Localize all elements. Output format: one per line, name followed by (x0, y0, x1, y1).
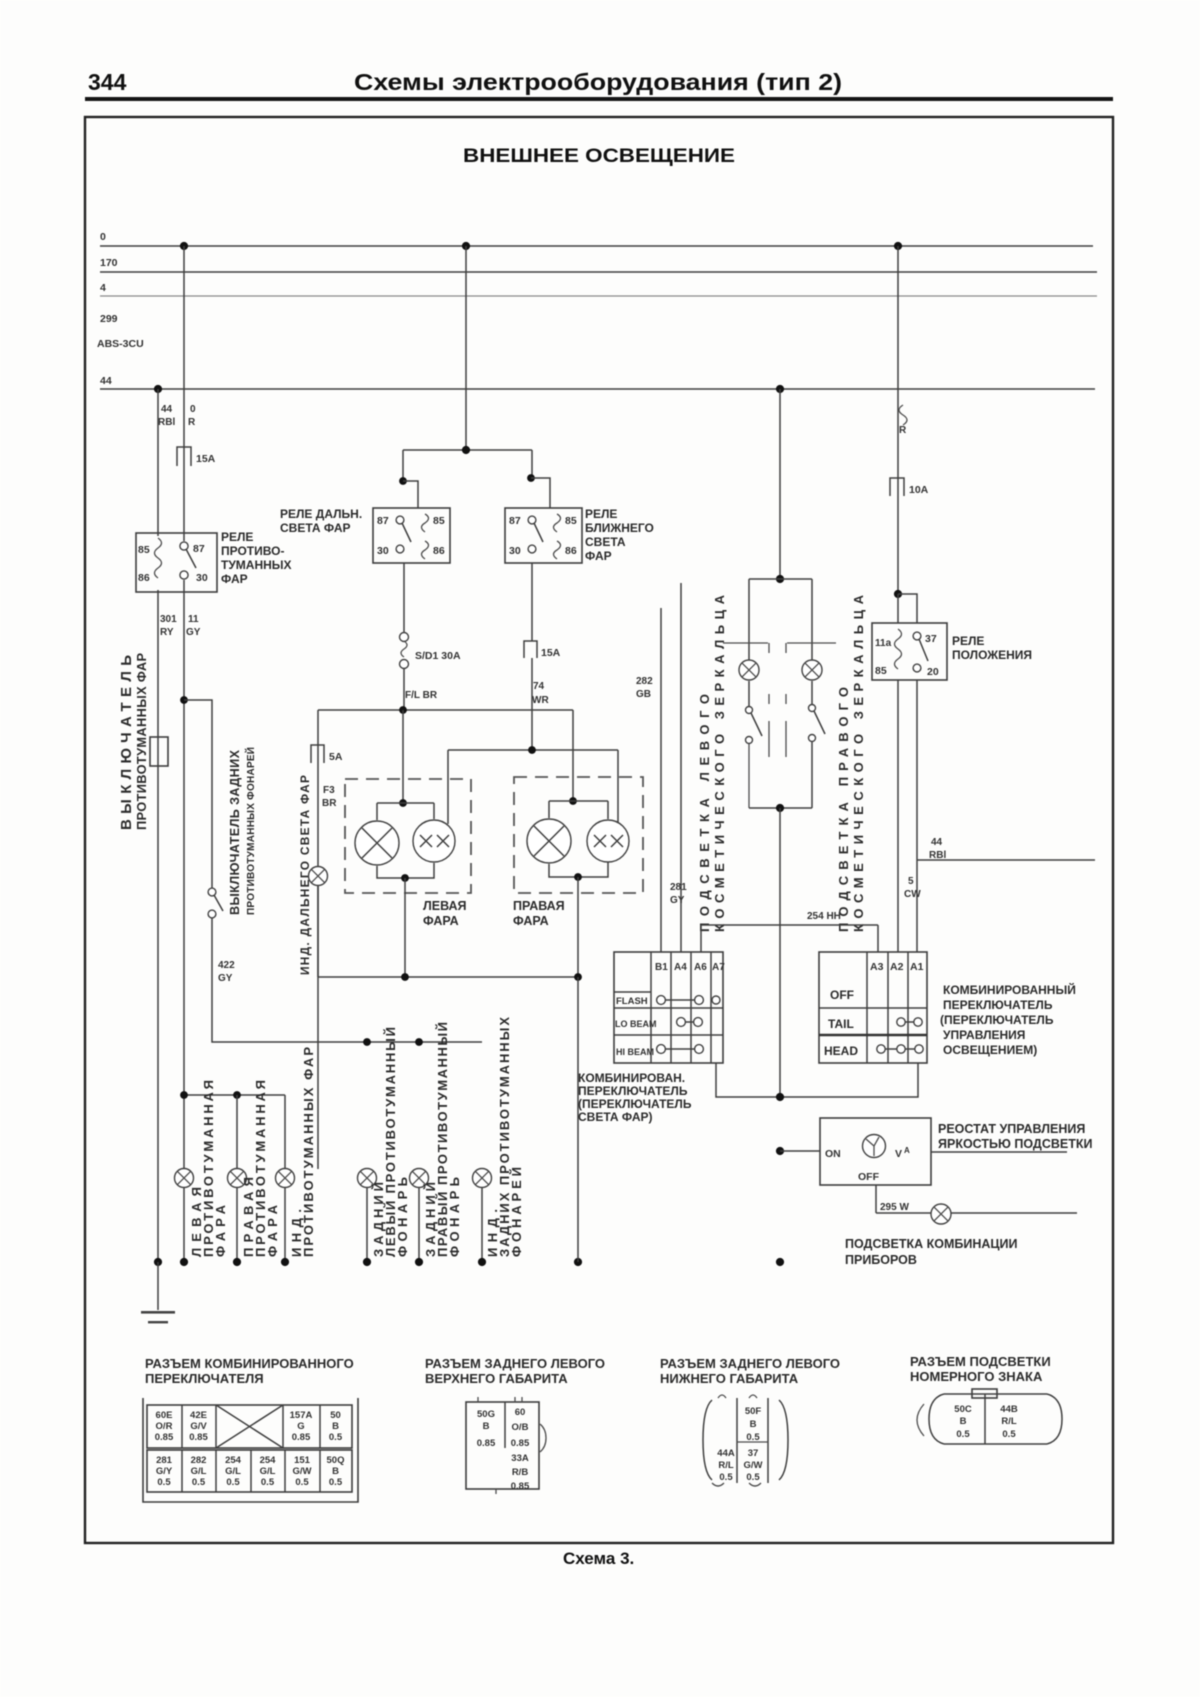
svg-text:G/W: G/W (744, 1460, 763, 1471)
svg-text:50C: 50C (954, 1404, 972, 1415)
svg-text:0.5: 0.5 (192, 1477, 206, 1488)
svg-text:R/L: R/L (718, 1460, 734, 1471)
svg-text:0: 0 (190, 404, 196, 415)
svg-text:86: 86 (565, 545, 577, 557)
svg-text:0.5: 0.5 (329, 1477, 343, 1488)
svg-text:74: 74 (533, 681, 545, 692)
svg-text:КОМБИНИРОВАН.: КОМБИНИРОВАН. (578, 1071, 685, 1085)
svg-text:A6: A6 (694, 962, 707, 973)
svg-text:ФАРА: ФАРА (513, 914, 549, 928)
svg-text:РЕЛЕ: РЕЛЕ (585, 507, 617, 521)
svg-text:ПОДСВЕТКА ПРАВОГО: ПОДСВЕТКА ПРАВОГО (836, 687, 851, 932)
svg-text:281: 281 (156, 1455, 173, 1466)
svg-text:87: 87 (193, 543, 205, 555)
svg-text:0.85: 0.85 (477, 1438, 496, 1449)
svg-text:0.5: 0.5 (746, 1432, 760, 1443)
svg-text:44: 44 (100, 375, 112, 387)
svg-text:85: 85 (433, 515, 445, 527)
svg-text:ПРАВАЯ: ПРАВАЯ (513, 899, 565, 913)
svg-text:0.5: 0.5 (329, 1432, 343, 1443)
svg-text:85: 85 (138, 544, 150, 556)
svg-text:R/L: R/L (1001, 1416, 1017, 1427)
svg-text:20: 20 (927, 666, 939, 678)
svg-text:344: 344 (88, 69, 127, 95)
svg-text:422: 422 (218, 960, 235, 971)
svg-text:44A: 44A (717, 1448, 735, 1459)
svg-text:254 HH: 254 HH (807, 911, 841, 922)
svg-text:ФАР: ФАР (221, 572, 248, 586)
svg-text:РАЗЪЕМ ЗАДНЕГО ЛЕВОГО: РАЗЪЕМ ЗАДНЕГО ЛЕВОГО (425, 1356, 605, 1371)
svg-text:295 W: 295 W (880, 1202, 909, 1213)
svg-text:Схемы электрооборудования (тип: Схемы электрооборудования (тип 2) (354, 69, 842, 95)
svg-text:TAIL: TAIL (828, 1017, 854, 1031)
svg-text:GB: GB (636, 689, 651, 700)
svg-text:ПРОТИВОТУМАННЫХ ФАР: ПРОТИВОТУМАННЫХ ФАР (301, 1047, 316, 1257)
svg-text:OFF: OFF (830, 988, 854, 1002)
svg-text:0.5: 0.5 (746, 1472, 760, 1483)
svg-text:ON: ON (825, 1148, 841, 1160)
svg-text:44B: 44B (1000, 1404, 1018, 1415)
svg-text:F3: F3 (323, 785, 335, 796)
svg-text:СВЕТА: СВЕТА (585, 535, 626, 549)
svg-text:РЕЛЕ: РЕЛЕ (952, 634, 984, 648)
svg-text:85: 85 (565, 515, 577, 527)
svg-text:60: 60 (515, 1407, 526, 1418)
svg-text:299: 299 (100, 313, 118, 325)
svg-text:301: 301 (160, 614, 177, 625)
svg-text:КОСМЕТИЧЕСКОГО ЗЕРКАЛЬЦА: КОСМЕТИЧЕСКОГО ЗЕРКАЛЬЦА (851, 594, 866, 932)
svg-text:170: 170 (100, 257, 118, 269)
svg-text:44: 44 (931, 837, 943, 848)
svg-text:ПЕРЕКЛЮЧАТЕЛЬ: ПЕРЕКЛЮЧАТЕЛЬ (578, 1084, 688, 1098)
svg-text:WR: WR (532, 695, 549, 706)
svg-text:КОСМЕТИЧЕСКОГО ЗЕРКАЛЬЦА: КОСМЕТИЧЕСКОГО ЗЕРКАЛЬЦА (712, 594, 727, 932)
svg-text:BR: BR (322, 798, 337, 809)
svg-text:СВЕТА ФАР): СВЕТА ФАР) (578, 1110, 653, 1124)
svg-text:15A: 15A (541, 647, 561, 659)
svg-text:RBl: RBl (158, 417, 175, 428)
svg-text:B: B (483, 1421, 490, 1432)
svg-text:РЕЛЕ: РЕЛЕ (221, 530, 253, 544)
svg-text:НИЖНЕГО ГАБАРИТА: НИЖНЕГО ГАБАРИТА (660, 1371, 799, 1386)
svg-text:151: 151 (294, 1455, 311, 1466)
svg-text:A3: A3 (870, 961, 884, 973)
svg-text:G/V: G/V (190, 1421, 207, 1432)
svg-text:5: 5 (908, 876, 914, 887)
svg-text:S/D1 30A: S/D1 30A (415, 650, 461, 662)
svg-text:0.5: 0.5 (157, 1477, 171, 1488)
svg-text:R/B: R/B (512, 1467, 529, 1478)
svg-text:0.85: 0.85 (511, 1438, 530, 1449)
svg-text:OFF: OFF (858, 1171, 880, 1183)
svg-text:87: 87 (509, 515, 521, 527)
svg-text:50Q: 50Q (327, 1455, 345, 1466)
svg-text:ПОЛОЖЕНИЯ: ПОЛОЖЕНИЯ (952, 648, 1032, 662)
svg-text:ФАР: ФАР (585, 549, 612, 563)
svg-text:281: 281 (670, 882, 687, 893)
svg-text:5A: 5A (329, 751, 343, 763)
svg-text:G/L: G/L (191, 1466, 207, 1477)
svg-text:ПРОТИВО-: ПРОТИВО- (221, 544, 284, 558)
svg-text:РАЗЪЕМ ЗАДНЕГО ЛЕВОГО: РАЗЪЕМ ЗАДНЕГО ЛЕВОГО (660, 1356, 840, 1371)
svg-text:A2: A2 (890, 961, 904, 973)
svg-text:282: 282 (636, 676, 653, 687)
svg-text:11: 11 (188, 614, 199, 625)
svg-text:282: 282 (191, 1455, 207, 1466)
svg-text:87: 87 (377, 515, 389, 527)
svg-text:44: 44 (161, 404, 173, 415)
svg-text:КОМБИНИРОВАННЫЙ: КОМБИНИРОВАННЫЙ (943, 982, 1076, 997)
svg-text:ВЕРХНЕГО ГАБАРИТА: ВЕРХНЕГО ГАБАРИТА (425, 1371, 568, 1386)
svg-text:РАЗЪЕМ КОМБИНИРОВАННОГО: РАЗЪЕМ КОМБИНИРОВАННОГО (145, 1356, 354, 1371)
svg-text:HEAD: HEAD (824, 1044, 858, 1058)
svg-text:ВНЕШНЕЕ ОСВЕЩЕНИЕ: ВНЕШНЕЕ ОСВЕЩЕНИЕ (463, 146, 735, 167)
svg-text:ПЕРЕКЛЮЧАТЕЛЬ: ПЕРЕКЛЮЧАТЕЛЬ (943, 998, 1053, 1012)
svg-text:B: B (332, 1421, 339, 1432)
svg-text:11a: 11a (875, 638, 892, 649)
svg-text:УПРАВЛЕНИЯ: УПРАВЛЕНИЯ (943, 1028, 1025, 1042)
svg-text:ПРИБОРОВ: ПРИБОРОВ (845, 1253, 917, 1267)
svg-text:0.5: 0.5 (295, 1477, 309, 1488)
svg-text:ЛЕВАЯ: ЛЕВАЯ (423, 899, 467, 913)
svg-text:0.5: 0.5 (719, 1472, 733, 1483)
svg-text:ЯРКОСТЬЮ ПОДСВЕТКИ: ЯРКОСТЬЮ ПОДСВЕТКИ (938, 1137, 1092, 1151)
svg-text:254: 254 (225, 1455, 242, 1466)
svg-text:86: 86 (433, 545, 445, 557)
svg-text:37: 37 (925, 633, 937, 645)
svg-text:G/Y: G/Y (156, 1466, 173, 1477)
svg-text:РЕЛЕ ДАЛЬН.: РЕЛЕ ДАЛЬН. (280, 507, 362, 521)
svg-text:ВЫКЛЮЧАТЕЛЬ ЗАДНИХ: ВЫКЛЮЧАТЕЛЬ ЗАДНИХ (228, 749, 242, 915)
svg-text:G: G (297, 1421, 304, 1432)
svg-text:0.85: 0.85 (511, 1481, 530, 1492)
svg-text:86: 86 (138, 572, 150, 584)
svg-text:R: R (899, 425, 907, 436)
svg-text:R: R (188, 417, 196, 428)
svg-text:СВЕТА ФАР: СВЕТА ФАР (280, 521, 351, 535)
svg-text:B: B (332, 1466, 339, 1477)
svg-text:ПЕРЕКЛЮЧАТЕЛЯ: ПЕРЕКЛЮЧАТЕЛЯ (145, 1371, 264, 1386)
svg-text:0.5: 0.5 (1002, 1429, 1016, 1440)
svg-text:РЕОСТАТ УПРАВЛЕНИЯ: РЕОСТАТ УПРАВЛЕНИЯ (938, 1122, 1085, 1136)
svg-text:LO BEAM: LO BEAM (615, 1019, 657, 1029)
svg-text:85: 85 (875, 665, 887, 677)
svg-text:50G: 50G (477, 1409, 495, 1420)
svg-text:ВЫКЛЮЧАТЕЛЬ: ВЫКЛЮЧАТЕЛЬ (118, 655, 135, 830)
svg-text:0.85: 0.85 (189, 1432, 208, 1443)
svg-text:V: V (895, 1148, 902, 1160)
svg-text:(ПЕРЕКЛЮЧАТЕЛЬ: (ПЕРЕКЛЮЧАТЕЛЬ (578, 1097, 692, 1111)
svg-text:ТУМАННЫХ: ТУМАННЫХ (221, 558, 292, 572)
svg-text:B1: B1 (655, 962, 668, 973)
svg-text:G/W: G/W (293, 1466, 312, 1477)
svg-text:4: 4 (100, 282, 106, 294)
svg-text:RY: RY (160, 627, 174, 638)
svg-text:42E: 42E (190, 1410, 207, 1421)
svg-text:ПРОТИВОТУМАННЫХ ФОНАРЕЙ: ПРОТИВОТУМАННЫХ ФОНАРЕЙ (244, 747, 257, 915)
svg-text:Схема 3.: Схема 3. (563, 1549, 634, 1568)
svg-text:НОМЕРНОГО ЗНАКА: НОМЕРНОГО ЗНАКА (910, 1369, 1043, 1384)
svg-text:GY: GY (186, 627, 201, 638)
svg-text:30: 30 (196, 572, 208, 584)
svg-text:HI BEAM: HI BEAM (616, 1047, 654, 1057)
svg-text:15A: 15A (196, 453, 216, 465)
svg-text:33A: 33A (511, 1453, 529, 1464)
svg-text:O/R: O/R (156, 1421, 173, 1432)
svg-text:10A: 10A (909, 484, 929, 496)
svg-text:0.85: 0.85 (155, 1432, 174, 1443)
svg-text:37: 37 (748, 1448, 759, 1459)
svg-text:ОСВЕЩЕНИЕМ): ОСВЕЩЕНИЕМ) (943, 1043, 1037, 1057)
svg-text:F/L BR: F/L BR (405, 690, 438, 701)
svg-text:ПОДСВЕТКА КОМБИНАЦИИ: ПОДСВЕТКА КОМБИНАЦИИ (845, 1237, 1018, 1251)
svg-text:0.5: 0.5 (261, 1477, 275, 1488)
svg-text:РАЗЪЕМ ПОДСВЕТКИ: РАЗЪЕМ ПОДСВЕТКИ (910, 1354, 1051, 1369)
svg-text:ПРОТИВОТУМАННАЯ: ПРОТИВОТУМАННАЯ (253, 1080, 268, 1257)
svg-text:B: B (750, 1419, 757, 1430)
svg-text:G/L: G/L (260, 1466, 276, 1477)
svg-text:B: B (960, 1416, 967, 1427)
svg-text:GY: GY (218, 973, 233, 984)
svg-text:50: 50 (330, 1410, 341, 1421)
svg-text:30: 30 (377, 545, 389, 557)
svg-text:50F: 50F (745, 1406, 762, 1417)
svg-text:CW: CW (904, 889, 921, 900)
svg-text:0.5: 0.5 (956, 1429, 970, 1440)
svg-text:60E: 60E (156, 1410, 173, 1421)
svg-text:ФАРА: ФАРА (423, 914, 459, 928)
svg-text:A7: A7 (712, 962, 725, 973)
svg-text:G/L: G/L (225, 1466, 241, 1477)
svg-text:ПРОТИВОТУМАННЫХ ФАР: ПРОТИВОТУМАННЫХ ФАР (134, 653, 149, 830)
svg-text:A1: A1 (910, 961, 924, 973)
svg-text:ABS-3CU: ABS-3CU (97, 338, 144, 350)
svg-text:0: 0 (100, 231, 106, 243)
svg-text:A: A (904, 1146, 910, 1155)
svg-text:FLASH: FLASH (616, 996, 648, 1007)
svg-text:GY: GY (670, 895, 685, 906)
svg-text:254: 254 (260, 1455, 277, 1466)
svg-text:(ПЕРЕКЛЮЧАТЕЛЬ: (ПЕРЕКЛЮЧАТЕЛЬ (940, 1013, 1054, 1027)
svg-text:157A: 157A (290, 1410, 313, 1421)
svg-text:БЛИЖНЕГО: БЛИЖНЕГО (585, 521, 654, 535)
svg-text:RBl: RBl (929, 850, 946, 861)
svg-text:30: 30 (509, 545, 521, 557)
svg-text:0.85: 0.85 (292, 1432, 311, 1443)
svg-text:A4: A4 (674, 962, 687, 973)
svg-text:0.5: 0.5 (226, 1477, 240, 1488)
svg-text:O/B: O/B (512, 1422, 529, 1433)
svg-text:ПРОТИВОТУМАННАЯ: ПРОТИВОТУМАННАЯ (201, 1080, 216, 1257)
